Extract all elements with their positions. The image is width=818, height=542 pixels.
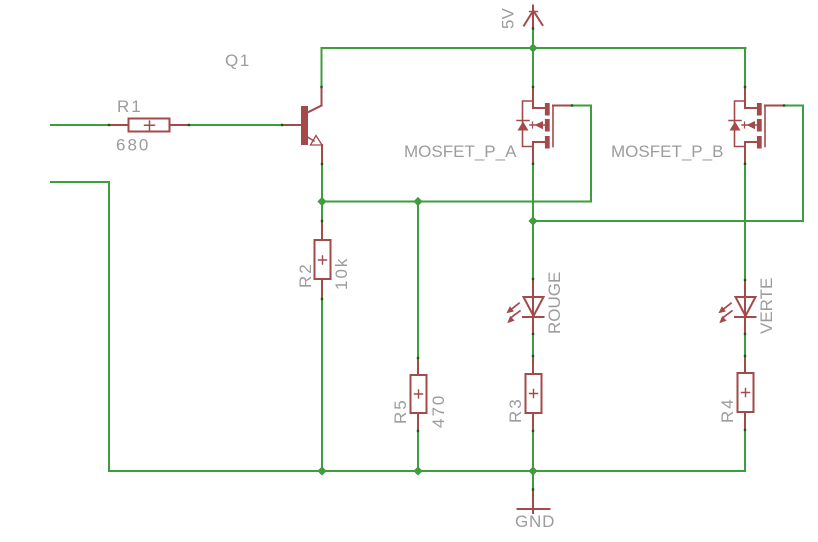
LED VERTE D2 <box>718 280 755 334</box>
label MOSFET_P_B <box>611 142 723 161</box>
wire gate B row <box>533 220 803 222</box>
wire node base row <box>322 201 591 203</box>
label R5 <box>391 398 410 424</box>
wire R3 bottom <box>532 431 534 471</box>
wire R1 right to Q1 base <box>189 124 282 126</box>
wire left vertical <box>108 182 110 471</box>
junction gate B row <box>528 216 537 225</box>
wire Q1 emitter down <box>321 164 323 221</box>
label 680 <box>116 136 150 155</box>
wire R4 bottom <box>744 430 746 471</box>
label VERTE <box>757 278 776 334</box>
svg-text:VERTE: VERTE <box>757 278 776 334</box>
label GND <box>515 512 555 531</box>
junction base row at R2 <box>317 197 326 206</box>
label 10k <box>332 257 351 290</box>
junction base row at R5 <box>413 197 422 206</box>
wire GND drop <box>532 471 534 490</box>
label R3 <box>506 397 525 423</box>
mosfet U-A MOSFET_P_A <box>517 87 572 164</box>
resistor R3 <box>526 356 542 431</box>
junction bottom rail R2 <box>317 466 326 475</box>
junction bottom rail R5 <box>413 466 422 475</box>
wire top rail <box>322 47 746 49</box>
svg-text:R2: R2 <box>296 262 315 288</box>
wire R1 left <box>51 124 109 126</box>
svg-text:470: 470 <box>429 394 448 428</box>
wire MOSFET B drain <box>744 48 746 87</box>
svg-text:R5: R5 <box>391 398 410 424</box>
svg-text:GND: GND <box>515 512 555 531</box>
label MOSFET_P_A <box>404 142 517 161</box>
wire Q1 collector up <box>321 48 323 87</box>
label ROUGE <box>545 272 564 334</box>
wire left stub horizontal <box>51 181 109 183</box>
svg-text:MOSFET_P_B: MOSFET_P_B <box>611 142 723 161</box>
pin dots dark green <box>108 27 785 490</box>
svg-text:10k: 10k <box>332 257 351 290</box>
wire R2 bottom <box>321 299 323 471</box>
wire gate B loop <box>785 106 804 222</box>
ground GND <box>518 490 550 514</box>
resistor R5 <box>411 358 427 431</box>
svg-text:ROUGE: ROUGE <box>545 272 564 334</box>
svg-text:Q1: Q1 <box>225 51 251 70</box>
svg-text:680: 680 <box>116 136 150 155</box>
LED ROUGE D1 <box>506 279 543 334</box>
svg-text:R1: R1 <box>117 97 143 116</box>
wire R5 bottom <box>417 431 419 471</box>
svg-text:5V: 5V <box>499 8 518 29</box>
label 470 <box>429 394 448 428</box>
resistor R1 <box>109 119 189 132</box>
wire LED ROUGE to R3 <box>532 334 534 356</box>
wire 5V down to MOSFET A drain <box>532 29 534 88</box>
label R1 <box>117 97 143 116</box>
svg-text:R3: R3 <box>506 397 525 423</box>
wire MOSFET A source down <box>532 165 534 280</box>
wire LED VERTE to R4 <box>744 334 746 356</box>
wire gate A loop <box>573 106 592 202</box>
junction bottom rail GND <box>528 466 537 475</box>
svg-text:MOSFET_P_A: MOSFET_P_A <box>404 142 517 161</box>
resistor R2 <box>315 221 331 299</box>
mosfet U-B MOSFET_P_B <box>729 87 784 164</box>
label R2 <box>296 262 315 288</box>
svg-text:R4: R4 <box>718 397 737 423</box>
label R4 <box>718 397 737 423</box>
label 5V <box>499 8 518 29</box>
supply 5V <box>524 6 543 29</box>
junction 5V node <box>528 43 537 52</box>
transistor Q1 <box>282 87 322 164</box>
label Q1 <box>225 51 251 70</box>
wire R5 top <box>417 202 419 359</box>
resistor R4 <box>738 356 754 430</box>
wire MOSFET B source down <box>744 165 746 281</box>
wire bottom rail <box>109 470 745 472</box>
